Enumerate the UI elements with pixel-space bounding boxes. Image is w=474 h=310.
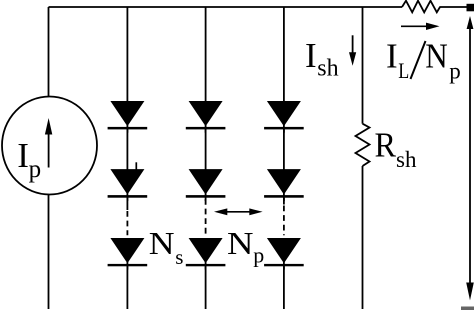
svg-text:L: L [398,58,409,83]
svg-text:p: p [449,58,461,83]
svg-text:sh: sh [317,55,338,81]
svg-text:I: I [305,36,317,75]
svg-text:N: N [425,37,448,76]
svg-text:s: s [175,245,183,269]
svg-text:sh: sh [396,147,417,172]
svg-text:I: I [17,136,29,175]
svg-text:N: N [149,225,175,261]
svg-text:I: I [386,36,398,75]
svg-text:p: p [29,156,41,183]
svg-text:p: p [253,243,264,268]
svg-text:N: N [227,225,254,261]
svg-text:R: R [375,126,397,165]
